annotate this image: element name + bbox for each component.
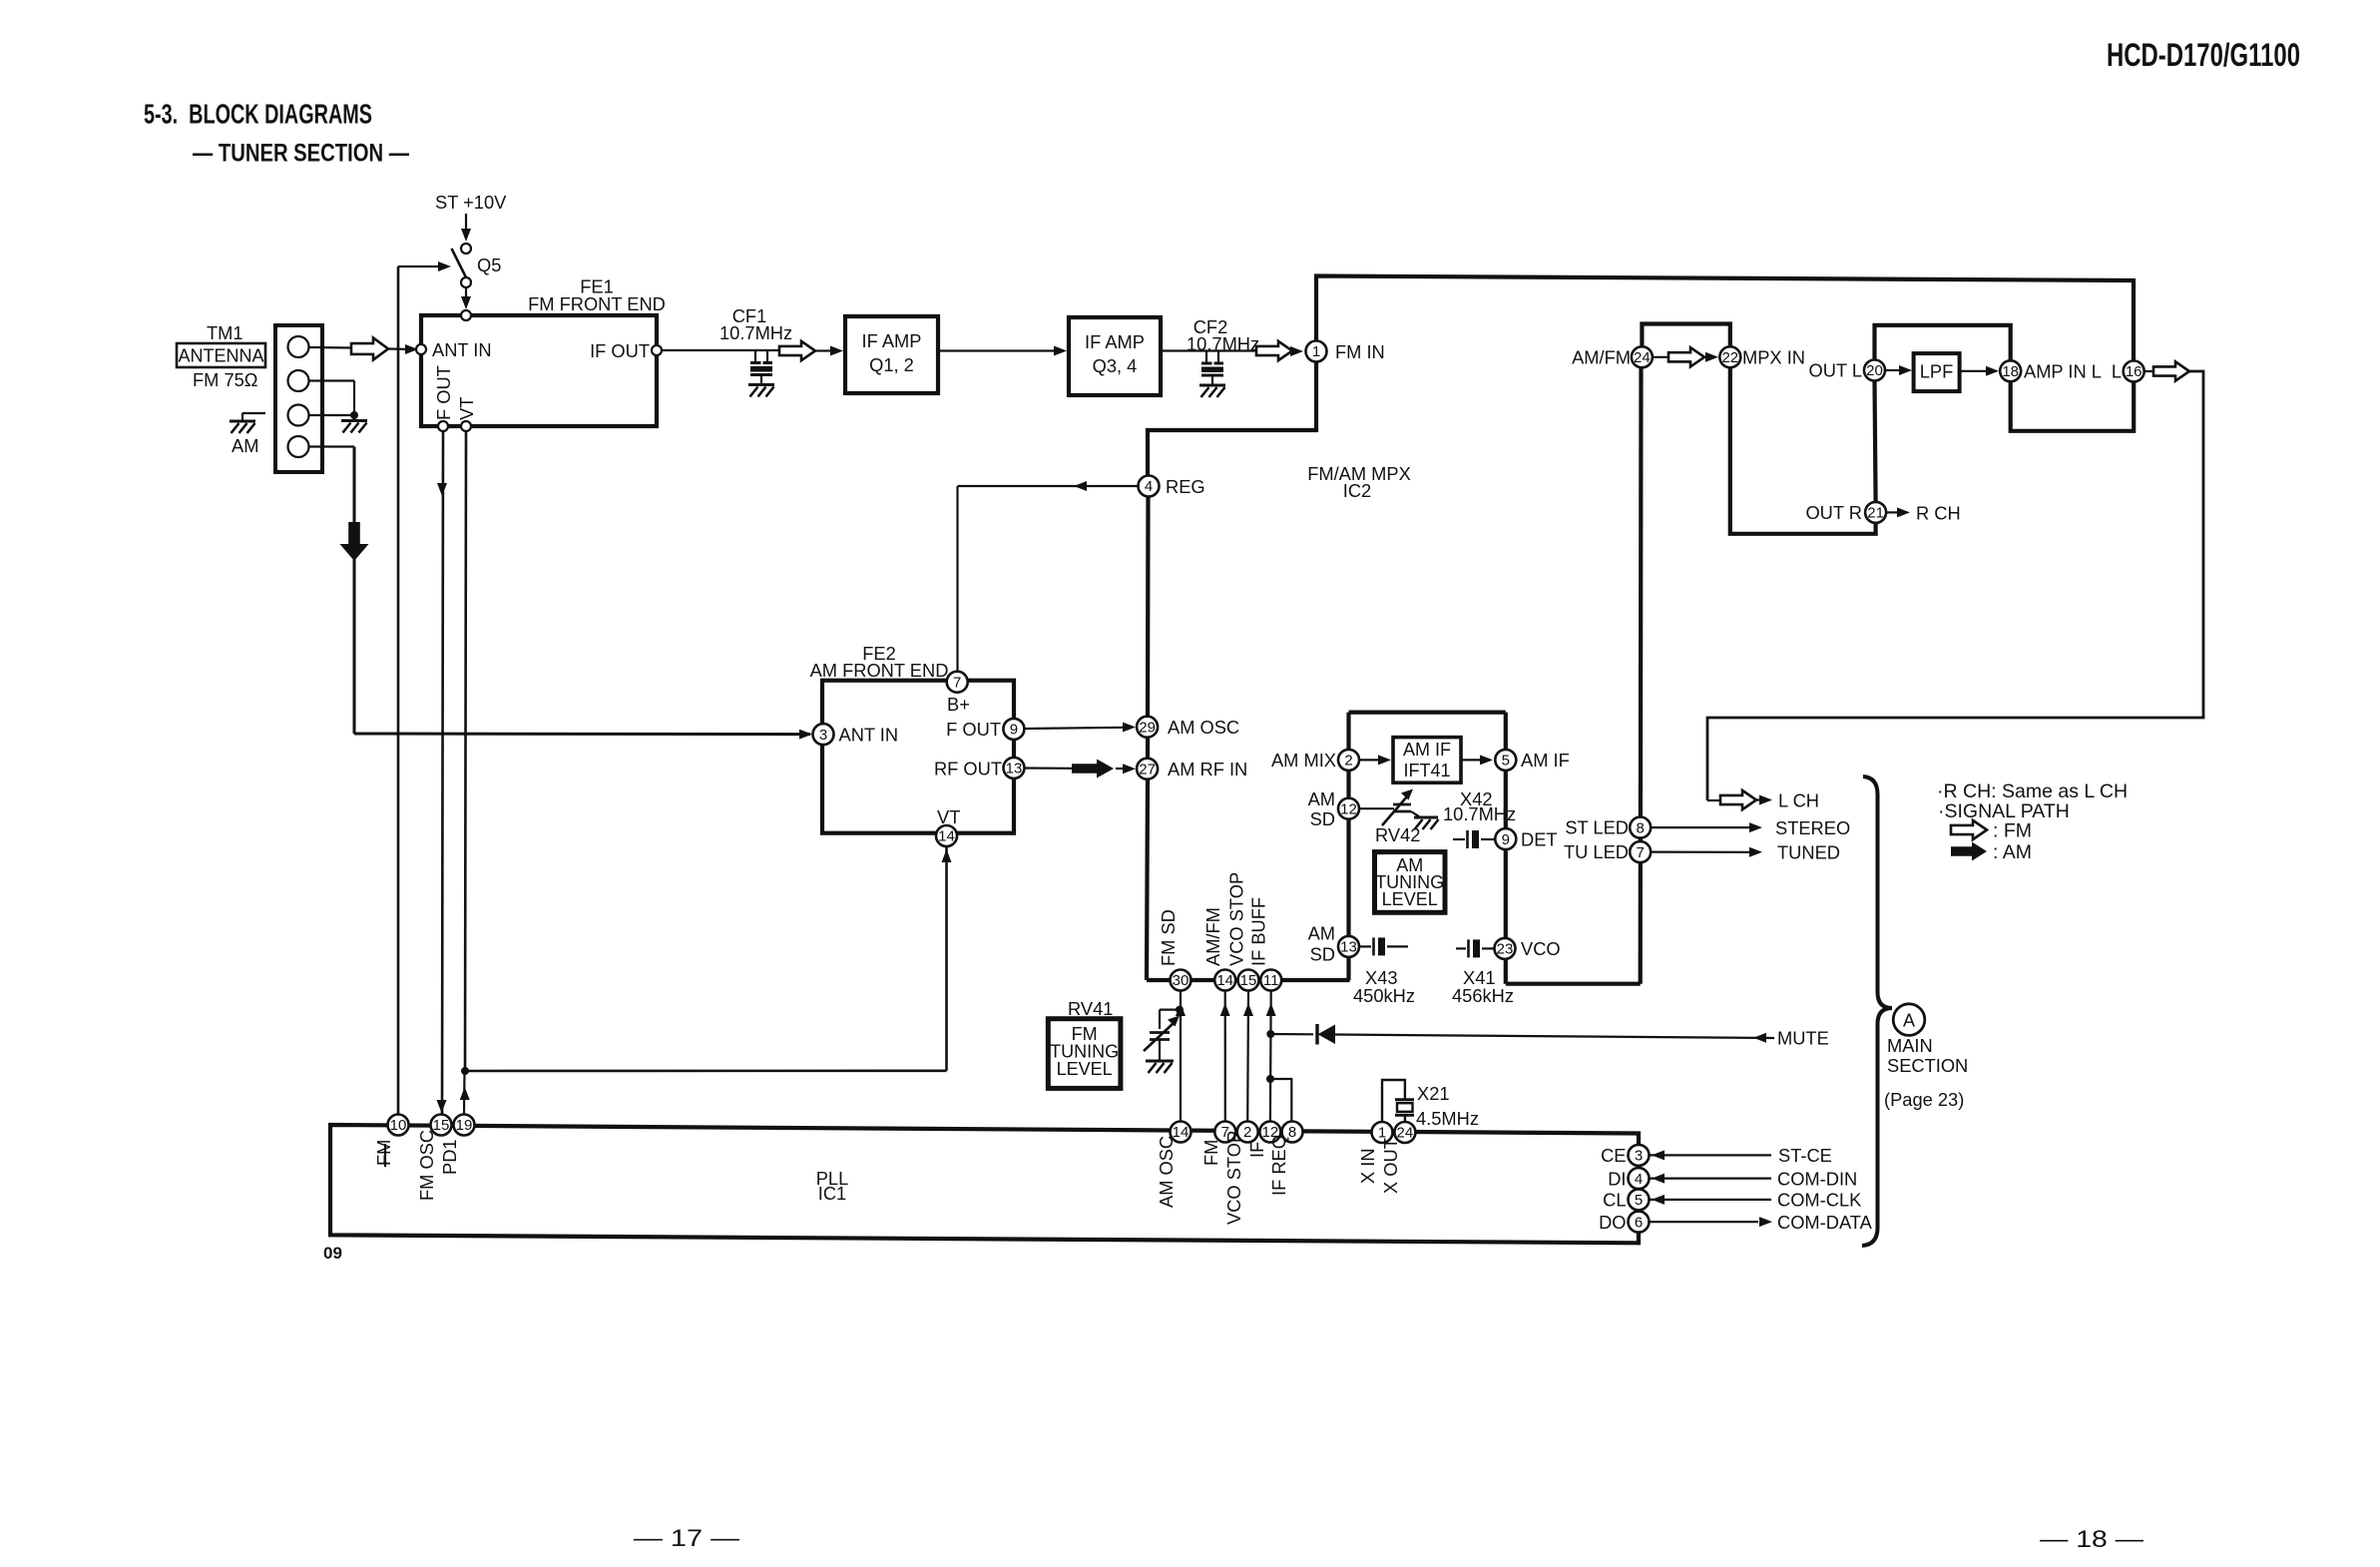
block PLL IC1 <box>330 1125 1639 1243</box>
capacitor X42 <box>1453 838 1465 840</box>
block IF AMP Q1,2 <box>845 316 938 393</box>
trimmer RV41 (FM tuning) <box>1160 1008 1180 1010</box>
wire CF1 arrow to IF AMP Q1,2 <box>815 349 830 351</box>
svg-text:OUT L: OUT L <box>1808 360 1862 381</box>
PLL pin 10 FM(bar) <box>388 1115 409 1136</box>
IC2 pin 4 REG <box>1139 476 1160 497</box>
wire AM antenna path <box>309 445 355 447</box>
svg-text:10.7MHz: 10.7MHz <box>1187 333 1259 354</box>
wire below 22 to OUT R loop <box>1730 367 1876 534</box>
wire LPF to 18 <box>1960 370 1987 372</box>
svg-text:F OUT: F OUT <box>433 365 454 420</box>
FM signal path arrow (L CH) <box>1707 799 1722 801</box>
wire ST+10V down <box>465 214 467 231</box>
svg-text:IF AMP: IF AMP <box>1085 331 1145 352</box>
svg-text:A: A <box>1903 1011 1915 1031</box>
svg-text:TU LED: TU LED <box>1564 841 1629 862</box>
capacitor X41 <box>1456 947 1466 949</box>
AM block outline top <box>1349 710 1506 714</box>
svg-text:13: 13 <box>1340 939 1357 956</box>
FE2 pin 13 RF OUT <box>1004 758 1025 779</box>
ground (AM antenna) <box>242 412 265 414</box>
svg-text:VT: VT <box>456 397 477 420</box>
block IF AMP Q3,4 <box>1069 317 1161 395</box>
svg-text:: AM: : AM <box>1993 841 2032 863</box>
svg-text:R CH: R CH <box>1916 503 1961 524</box>
svg-text:L: L <box>2112 361 2122 382</box>
IC2 pin 2 AM MIX <box>1338 750 1359 771</box>
connector TM1 body <box>275 325 322 472</box>
FE1 pin ANT IN <box>416 344 426 354</box>
svg-text:AM FRONT END: AM FRONT END <box>810 660 949 681</box>
svg-text:COM-DIN: COM-DIN <box>1777 1168 1857 1189</box>
wire below FM IN to REG branch <box>1148 362 1316 476</box>
connector terminal 1 <box>288 336 309 357</box>
svg-text:VT: VT <box>937 806 960 827</box>
IC2 pin 1 FM IN <box>1306 341 1327 362</box>
wire terminal3 <box>309 414 355 416</box>
svg-text:DO: DO <box>1599 1212 1626 1233</box>
IC2 pin 22 MPX IN <box>1719 346 1740 367</box>
svg-text:IF BUFF: IF BUFF <box>1248 897 1269 966</box>
ground (terminal block) <box>353 415 355 420</box>
svg-text:10.7MHz: 10.7MHz <box>719 322 792 343</box>
svg-text:PD1: PD1 <box>439 1139 460 1175</box>
PLL pin 24 X OUT <box>1394 1122 1415 1143</box>
svg-text:15: 15 <box>1240 972 1257 989</box>
IC2 pin 7 TU LED <box>1630 841 1651 862</box>
svg-text:X IN: X IN <box>1357 1148 1378 1184</box>
capacitor CF2 <box>1205 351 1207 362</box>
capacitor CF1 <box>754 350 756 361</box>
IC2 pin 13 AM SD <box>1338 936 1359 957</box>
svg-text:CE: CE <box>1601 1145 1626 1166</box>
svg-text:2: 2 <box>1344 753 1352 770</box>
node IF REQ branch junction <box>1266 1075 1274 1083</box>
trimmer RV42 <box>1359 807 1394 809</box>
wire L out to L CH <box>1707 371 2203 800</box>
svg-text:AM: AM <box>232 435 258 456</box>
svg-text:5-3. BLOCK DIAGRAMS: 5-3. BLOCK DIAGRAMS <box>144 99 372 130</box>
svg-text:AM MIX: AM MIX <box>1271 750 1336 771</box>
block LPF <box>1914 353 1960 391</box>
wire bracket 20 to 18 <box>1875 325 2011 360</box>
svg-text:AM IF: AM IF <box>1403 740 1451 760</box>
wire FM antenna to ANT IN <box>309 346 352 349</box>
svg-text:RV42: RV42 <box>1375 824 1420 845</box>
wire branch to PLL pin8 <box>1270 1079 1291 1122</box>
svg-text:8: 8 <box>1637 819 1645 836</box>
svg-text:09: 09 <box>323 1244 342 1263</box>
wire Q5 to FE1 <box>465 287 467 298</box>
switch Q5 lower contact <box>461 277 471 287</box>
svg-text:RV41: RV41 <box>1068 998 1113 1019</box>
FE2 pin 9 F OUT <box>1003 719 1024 740</box>
svg-text:STEREO: STEREO <box>1775 817 1850 838</box>
svg-text:9: 9 <box>1502 831 1510 848</box>
svg-text:2: 2 <box>1243 1124 1251 1141</box>
node RV41 junction <box>1176 1006 1184 1014</box>
IC2 pin 11 IF BUFF <box>1260 970 1281 991</box>
svg-text:COM-CLK: COM-CLK <box>1777 1190 1861 1211</box>
FM signal path arrow (24 to 22) <box>1653 356 1670 358</box>
node terminal ground junction <box>350 411 358 419</box>
svg-text:7: 7 <box>1637 844 1645 861</box>
wire COM-DATA <box>1650 1221 1758 1223</box>
svg-text:TM1: TM1 <box>207 322 243 343</box>
wire RF OUT to 27 + AM arrow <box>1025 767 1073 769</box>
svg-text:20: 20 <box>1866 362 1883 379</box>
wire IF OUT to CF1 <box>662 349 778 351</box>
svg-text:14: 14 <box>1216 972 1233 989</box>
svg-text:— 17 —: — 17 — <box>634 1525 739 1552</box>
PLL pin 12 IF <box>1259 1122 1280 1143</box>
connector terminal 2 <box>288 370 309 391</box>
svg-text:6: 6 <box>1635 1214 1643 1231</box>
svg-text:: FM: : FM <box>1993 820 2032 842</box>
svg-text:ST +10V: ST +10V <box>435 192 507 213</box>
svg-text:456kHz: 456kHz <box>1452 985 1514 1006</box>
svg-text:12: 12 <box>1340 800 1357 817</box>
wire OUT R to R CH <box>1886 511 1899 513</box>
svg-text:AM/FM: AM/FM <box>1572 347 1631 368</box>
svg-text:23: 23 <box>1497 941 1514 958</box>
svg-text:IF OUT: IF OUT <box>590 340 650 361</box>
IC2 pin 20 OUT L <box>1864 360 1885 381</box>
svg-text:RF OUT: RF OUT <box>934 758 1002 779</box>
svg-text:MAIN: MAIN <box>1887 1035 1933 1056</box>
FE1 pin top (B+) <box>461 310 471 320</box>
svg-text:MPX IN: MPX IN <box>1742 347 1805 368</box>
wire PD1 to junction <box>463 1071 466 1114</box>
IC2 pin 12 AM SD <box>1338 798 1359 819</box>
svg-text:VCO: VCO <box>1521 938 1561 959</box>
FE2 pin 14 VT <box>936 825 957 846</box>
capacitor X43 <box>1359 945 1371 947</box>
wire FM line (x=399) <box>397 266 400 1114</box>
PLL pin 19 PD1 <box>454 1115 475 1136</box>
wire F OUT to PLL pin15 <box>442 431 443 1114</box>
FM signal path arrow (CF2) <box>1256 341 1292 360</box>
PLL pin 14 AM OSC <box>1171 1122 1191 1143</box>
svg-text:ST-CE: ST-CE <box>1778 1145 1832 1166</box>
svg-text:8: 8 <box>1288 1124 1296 1141</box>
svg-text:27: 27 <box>1139 761 1156 778</box>
FM signal path arrow (antenna) <box>351 338 388 360</box>
FE1 pin VT <box>461 421 471 431</box>
IC2 pin 5 AM IF <box>1495 750 1516 771</box>
wire VT junction to FE2 VT <box>465 1070 947 1073</box>
svg-text:DI: DI <box>1608 1168 1626 1189</box>
block FE1 FM FRONT END <box>421 315 657 426</box>
svg-text:ANT IN: ANT IN <box>839 725 899 746</box>
svg-text:4.5MHz: 4.5MHz <box>1416 1108 1479 1129</box>
antenna label box <box>177 343 265 367</box>
svg-text:13: 13 <box>1006 761 1023 778</box>
connector terminal 4 <box>288 436 309 457</box>
wire IF AMP Q1,2 to Q3,4 <box>938 349 1054 351</box>
svg-text:(Page 23): (Page 23) <box>1884 1089 1964 1110</box>
switch Q5 upper contact <box>461 244 471 254</box>
svg-text:ANT IN: ANT IN <box>432 339 492 360</box>
svg-text:OUT R: OUT R <box>1805 502 1862 523</box>
wire COM-DIN <box>1650 1177 1771 1179</box>
svg-text:24: 24 <box>1634 349 1651 366</box>
wire VT line FE1 down <box>465 431 466 1071</box>
diode (MUTE) <box>1270 1033 1313 1036</box>
wire diode to MUTE <box>1335 1035 1774 1039</box>
svg-text:16: 16 <box>2126 363 2142 380</box>
svg-text:14: 14 <box>938 828 955 845</box>
svg-text:IC2: IC2 <box>1343 480 1371 501</box>
svg-text:FM SD: FM SD <box>1158 909 1179 966</box>
svg-text:REG: REG <box>1166 476 1205 497</box>
svg-text:3: 3 <box>1635 1148 1643 1165</box>
svg-text:5: 5 <box>1502 753 1510 770</box>
svg-text:11: 11 <box>1263 972 1279 989</box>
svg-text:AM/FM: AM/FM <box>1202 907 1223 966</box>
svg-text:MUTE: MUTE <box>1777 1028 1829 1049</box>
svg-text:SD: SD <box>1310 944 1335 965</box>
legend AM arrow <box>1951 842 1987 861</box>
wire bracket 18 to 16 (lower) <box>2011 381 2135 431</box>
wire pin14 to PLL pin7 <box>1224 991 1226 1122</box>
svg-text:X21: X21 <box>1417 1083 1450 1104</box>
svg-text:·R CH: Same as L CH: ·R CH: Same as L CH <box>1937 781 2128 802</box>
node VT/PD1 junction <box>461 1067 469 1075</box>
brace MAIN SECTION <box>1862 777 1892 1246</box>
switch Q5 blade <box>452 249 468 279</box>
PLL pin 4 DI <box>1629 1168 1650 1189</box>
IC2 bottom edge <box>1147 978 1350 982</box>
svg-text:TUNED: TUNED <box>1777 842 1840 863</box>
crystal X21 <box>1382 1080 1405 1122</box>
IC2 pin 24 AM/FM <box>1632 346 1653 367</box>
svg-text:B+: B+ <box>947 694 970 715</box>
block AM IF IFT41 <box>1393 738 1461 783</box>
wire 2 to AM IF <box>1359 759 1378 761</box>
svg-text:IF AMP: IF AMP <box>862 330 922 351</box>
IC2 pin 8 ST LED <box>1630 817 1651 838</box>
wire pin15 to PLL pin2 <box>1246 991 1249 1122</box>
PLL pin 5 CL <box>1629 1189 1650 1210</box>
AM block left edge <box>1346 713 1350 980</box>
svg-text:LEVEL: LEVEL <box>1382 889 1438 909</box>
node diode junction <box>1266 1030 1274 1038</box>
svg-text:4: 4 <box>1145 478 1153 495</box>
svg-text:X OUT: X OUT <box>1380 1138 1401 1194</box>
wire IC2 top bus to pin16 <box>1316 276 2134 361</box>
PLL pin 7 FM <box>1214 1122 1235 1143</box>
svg-text:29: 29 <box>1139 719 1156 736</box>
svg-text:SD: SD <box>1310 808 1335 829</box>
svg-text:AM: AM <box>1308 923 1335 944</box>
svg-text:22: 22 <box>1721 349 1738 366</box>
wire AM IF to 5 <box>1461 759 1480 761</box>
wire pin30 to PLL pin14 <box>1180 991 1182 1122</box>
PLL pin 3 CE <box>1629 1145 1650 1166</box>
svg-text:FM OSC: FM OSC <box>416 1130 437 1201</box>
block FE2 AM FRONT END <box>822 681 1014 833</box>
wire ST LED to STEREO <box>1651 826 1749 828</box>
svg-text:AM: AM <box>1308 788 1335 809</box>
svg-text:IFT41: IFT41 <box>1403 761 1450 781</box>
svg-text:19: 19 <box>456 1117 473 1134</box>
svg-text:VCO STOP: VCO STOP <box>1223 1131 1244 1225</box>
svg-text:IF: IF <box>1246 1142 1267 1158</box>
AM block bottom jog to LED column <box>1506 982 1641 986</box>
wire 20 to 21 <box>1875 381 1876 502</box>
wire AM/FM 24 down to ST/TU LED pins <box>1639 367 1644 983</box>
svg-text:5: 5 <box>1635 1192 1643 1209</box>
svg-text:FM IN: FM IN <box>1335 341 1385 362</box>
svg-text:HCD-D170/G1100: HCD-D170/G1100 <box>2107 37 2300 73</box>
wire pin11 to PLL pin12 <box>1269 991 1272 1122</box>
PLL pin 8 IF REQ <box>1282 1122 1303 1143</box>
svg-text:Q1, 2: Q1, 2 <box>869 354 914 375</box>
svg-text:Q5: Q5 <box>477 255 501 275</box>
wire terminal2 down <box>309 379 355 381</box>
FE2 pin 7 B+ <box>947 672 968 693</box>
svg-text:LEVEL: LEVEL <box>1057 1059 1113 1079</box>
FM signal path arrow (CF1) <box>779 341 815 360</box>
AM signal path arrow (down) <box>340 522 369 561</box>
svg-text:FM: FM <box>373 1140 394 1166</box>
IC2 pin 23 VCO <box>1495 938 1516 959</box>
svg-text:30: 30 <box>1173 972 1190 989</box>
IC2 pin 15 VCO STOP <box>1238 970 1259 991</box>
FE1 pin F OUT <box>438 421 448 431</box>
PLL pin 15 FM OSC <box>431 1115 452 1136</box>
svg-text:FM: FM <box>1200 1140 1221 1166</box>
wire CF2 arrow to FM IN <box>1290 349 1292 351</box>
wire REG to FE2 B+ <box>958 485 1139 487</box>
svg-text:21: 21 <box>1867 505 1884 522</box>
IC2 left edge <box>1146 497 1151 717</box>
svg-text:AM RF IN: AM RF IN <box>1168 759 1247 780</box>
PLL pin 1 X IN <box>1372 1122 1393 1143</box>
svg-text:SECTION: SECTION <box>1887 1055 1968 1076</box>
svg-text:Q3, 4: Q3, 4 <box>1093 355 1138 376</box>
block AM TUNING LEVEL <box>1375 852 1446 913</box>
svg-text:3: 3 <box>819 727 827 744</box>
svg-text:7: 7 <box>953 674 961 691</box>
IC2 pin 18 AMP IN L <box>2000 360 2021 381</box>
wire TU LED to TUNED <box>1651 850 1749 852</box>
PLL pin 6 DO <box>1629 1212 1650 1233</box>
block RV41 FM TUNING LEVEL <box>1048 1019 1121 1089</box>
svg-text:L CH: L CH <box>1778 790 1819 811</box>
PLL pin 2 VCO STOP <box>1237 1122 1258 1143</box>
wire bracket 24 to 22 <box>1642 324 1729 347</box>
svg-text:AMP IN L: AMP IN L <box>2024 361 2102 382</box>
FE2 pin 3 ANT IN <box>813 724 834 745</box>
svg-text:IF REQ: IF REQ <box>1268 1135 1289 1196</box>
svg-text:AM OSC: AM OSC <box>1156 1136 1177 1208</box>
svg-text:4: 4 <box>1635 1171 1643 1188</box>
svg-text:1: 1 <box>1312 343 1320 360</box>
IC2 pin 14 AM/FM <box>1214 970 1235 991</box>
svg-text:IC1: IC1 <box>818 1183 846 1204</box>
svg-text:AM IF: AM IF <box>1521 750 1570 771</box>
svg-text:COM-DATA: COM-DATA <box>1777 1212 1873 1233</box>
svg-text:10: 10 <box>390 1117 407 1134</box>
svg-text:450kHz: 450kHz <box>1353 985 1415 1006</box>
svg-text:VCO STOP: VCO STOP <box>1226 872 1247 966</box>
AM block right edge <box>1504 713 1508 984</box>
FE1 pin IF OUT <box>652 345 662 355</box>
IC2 pin 27 AM RF IN <box>1137 759 1158 780</box>
svg-text:CL: CL <box>1603 1190 1626 1211</box>
svg-text:10.7MHz: 10.7MHz <box>1443 803 1516 824</box>
IC2 pin 16 L <box>2124 361 2144 382</box>
svg-text:18: 18 <box>2002 363 2019 380</box>
svg-text:ANTENNA: ANTENNA <box>178 346 263 366</box>
wire IF AMP Q3,4 to CF2 <box>1161 349 1255 351</box>
connector terminal 3 <box>288 405 309 426</box>
svg-text:F OUT: F OUT <box>946 719 1001 740</box>
FM signal path arrow (L out) <box>2144 370 2155 372</box>
svg-text:— TUNER SECTION —: — TUNER SECTION — <box>193 141 409 168</box>
legend FM arrow <box>1951 820 1987 839</box>
wire Q5 control from FM line <box>398 265 442 267</box>
wire ST-CE <box>1650 1154 1771 1156</box>
svg-text:LPF: LPF <box>1920 361 1954 382</box>
IC2 pin 21 OUT R <box>1865 502 1886 523</box>
svg-text:DET: DET <box>1521 829 1558 850</box>
svg-text:9: 9 <box>1010 722 1018 739</box>
wire COM-CLK <box>1650 1199 1771 1201</box>
wire 20 to LPF <box>1885 369 1899 371</box>
svg-text:FM FRONT END: FM FRONT END <box>528 293 666 314</box>
svg-text:ST LED: ST LED <box>1565 817 1629 838</box>
IC2 pin 30 FM SD <box>1171 970 1191 991</box>
wire F OUT to 29 <box>1025 728 1124 729</box>
svg-text:FM 75Ω: FM 75Ω <box>193 369 257 390</box>
IC2 pin 9 DET <box>1495 828 1516 849</box>
IC2 pin 29 AM OSC <box>1137 717 1158 738</box>
node A circle <box>1893 1004 1925 1036</box>
svg-text:— 18 —: — 18 — <box>2040 1526 2143 1553</box>
svg-text:AM OSC: AM OSC <box>1168 717 1239 738</box>
